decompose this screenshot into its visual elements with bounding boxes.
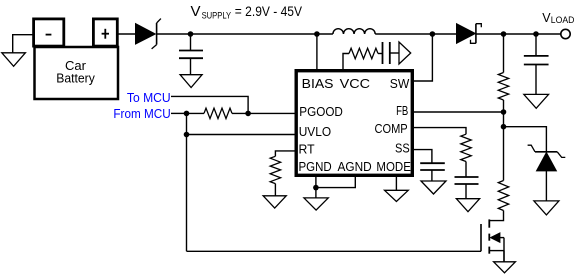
resistor R_PG (PGOOD pull) — [204, 108, 232, 118]
wire RFB2 to Q1 drain — [489, 211, 503, 221]
label From MCU — [113, 107, 170, 121]
svg-text:PGOOD: PGOOD — [299, 104, 343, 119]
capacitor C_VCC (snubber) — [383, 42, 390, 64]
pin label BIAS — [302, 76, 334, 91]
wire RFB1 to FB node — [503, 100, 505, 112]
svg-text:RT: RT — [299, 142, 315, 157]
ground (C_SS) — [421, 181, 446, 194]
capacitor CIN — [179, 51, 203, 59]
pin label COMP — [375, 121, 408, 136]
svg-text:FB: FB — [396, 103, 408, 118]
wire FB node to zener node — [503, 112, 505, 127]
pin label FB — [396, 103, 408, 118]
node UVLO junction — [184, 132, 190, 138]
ground (Q1 source) — [494, 262, 516, 273]
node output cap junction — [533, 31, 539, 37]
ground (battery negative) — [2, 53, 26, 67]
wire To MCU to PGOOD node — [171, 96, 248, 113]
diode DZ (zener clamp) — [528, 145, 566, 171]
wire BIAS pin — [316, 34, 318, 69]
svg-text:V: V — [191, 3, 201, 20]
wire zener branch — [504, 127, 547, 152]
pin label VCC — [340, 76, 370, 91]
label VSUPPLY — [191, 3, 303, 21]
wire C_COMP to ground — [465, 184, 467, 199]
svg-text:Battery: Battery — [56, 71, 95, 86]
svg-text:SS: SS — [395, 141, 410, 156]
wire snubber resistor to capacitor — [378, 53, 383, 55]
svg-text:From MCU: From MCU — [113, 107, 170, 121]
wire zener node to RFB2 — [503, 127, 505, 181]
node From MCU junction — [184, 111, 190, 117]
pin label PGOOD — [299, 104, 343, 119]
wire From MCU — [171, 112, 187, 114]
capacitor COUT — [524, 56, 549, 65]
svg-text:VCC: VCC — [340, 76, 370, 91]
wire UVLO pin — [187, 134, 295, 136]
diode D2 (Schottky) — [457, 24, 482, 44]
wire SW pin — [414, 34, 432, 81]
wire MODE pin to ground — [395, 177, 397, 190]
wire battery negative to ground — [13, 35, 35, 53]
svg-text:BIAS: BIAS — [302, 76, 334, 91]
wire VCC pin to snubber resistor — [343, 54, 349, 70]
wire D1 to input node — [157, 33, 191, 35]
wire COUT to ground — [535, 65, 537, 95]
wire R_COMP to C_COMP — [465, 162, 467, 178]
inductor L1 — [317, 29, 433, 34]
wire SW node to D2 — [432, 33, 456, 35]
diode D1 (TVS, reverse protection) — [136, 19, 161, 49]
wire PGOOD pin — [248, 112, 294, 114]
wire zener to ground — [545, 171, 547, 201]
ground (CIN) — [180, 75, 202, 88]
node VSUPPLY junction — [188, 31, 194, 37]
pin label PGND — [299, 159, 332, 174]
svg-text:SW: SW — [390, 76, 410, 91]
node FB — [501, 109, 507, 115]
svg-text:To MCU: To MCU — [127, 91, 171, 105]
wire input node to inductor node — [191, 33, 317, 35]
wire C_SS to ground — [431, 170, 433, 181]
svg-text:PGND: PGND — [299, 159, 332, 174]
diode D_VCC (snubber, open triangle) — [399, 42, 411, 64]
capacitor C_COMP — [455, 177, 479, 184]
resistor RFB2 — [498, 181, 508, 211]
resistor R_VCC (snubber) — [349, 48, 378, 58]
wire snubber capacitor to diode — [390, 52, 399, 54]
node feedback divider junction — [501, 31, 507, 37]
pin label UVLO — [299, 124, 331, 139]
wire bottom run to Q1 gate — [187, 250, 482, 252]
wire AGND pin — [316, 177, 355, 188]
wire FB pin — [414, 111, 504, 113]
node inductor/BIAS junction — [314, 31, 320, 37]
svg-text:UVLO: UVLO — [299, 124, 331, 139]
svg-text:AGND: AGND — [338, 159, 372, 174]
capacitor C_SS — [420, 163, 445, 170]
resistor R_COMP — [461, 134, 471, 161]
node SW junction — [430, 31, 436, 37]
ground (C_COMP) — [456, 199, 479, 212]
wire R_RT to ground — [274, 184, 276, 196]
ground (MODE) — [385, 190, 409, 201]
wire battery positive to D1 — [117, 33, 136, 35]
label VLOAD — [542, 11, 575, 25]
transistor Q1 (N-MOSFET) — [481, 219, 504, 261]
wire PGND pin to ground — [315, 177, 317, 198]
ground (R_RT) — [263, 196, 286, 208]
wire RT pin — [275, 151, 294, 156]
wire R_PG to PGOOD node — [232, 112, 248, 114]
pin label AGND — [338, 159, 372, 174]
wire SS pin — [414, 150, 432, 164]
pin label MODE — [376, 159, 411, 174]
battery BT1 (car battery) — [34, 19, 118, 99]
ground (COUT) — [524, 94, 549, 108]
resistor RFB1 — [498, 73, 508, 101]
wire Q1 source to ground — [503, 251, 505, 262]
resistor R_RT — [270, 156, 280, 183]
wire From MCU node to R_PG — [187, 112, 205, 114]
ground (PGND) — [304, 198, 328, 210]
terminal VLOAD — [561, 29, 570, 38]
node zener branch — [501, 124, 507, 130]
pin label SS — [395, 141, 410, 156]
svg-text:MODE: MODE — [376, 159, 411, 174]
node PGOOD junction — [245, 111, 251, 117]
wire From MCU down — [186, 113, 188, 251]
ground (zener) — [534, 201, 559, 215]
wire output node to COUT — [535, 34, 537, 56]
svg-text:COMP: COMP — [375, 121, 408, 136]
wire D2 to VLOAD terminal — [476, 33, 561, 35]
wire output node to RFB1 — [503, 34, 505, 73]
pin label RT — [299, 142, 315, 157]
op-amp U1 (buck converter IC) outline — [296, 71, 412, 176]
wire input node to CIN — [190, 34, 192, 51]
wire COMP pin — [414, 128, 466, 135]
label To MCU — [127, 91, 171, 105]
node PGND/AGND junction — [313, 185, 319, 191]
svg-text:SUPPLY: SUPPLY — [202, 11, 232, 21]
svg-text:= 2.9V - 45V: = 2.9V - 45V — [235, 3, 303, 19]
svg-text:LOAD: LOAD — [551, 15, 575, 25]
wire CIN to ground — [190, 58, 192, 74]
pin label SW — [390, 76, 410, 91]
